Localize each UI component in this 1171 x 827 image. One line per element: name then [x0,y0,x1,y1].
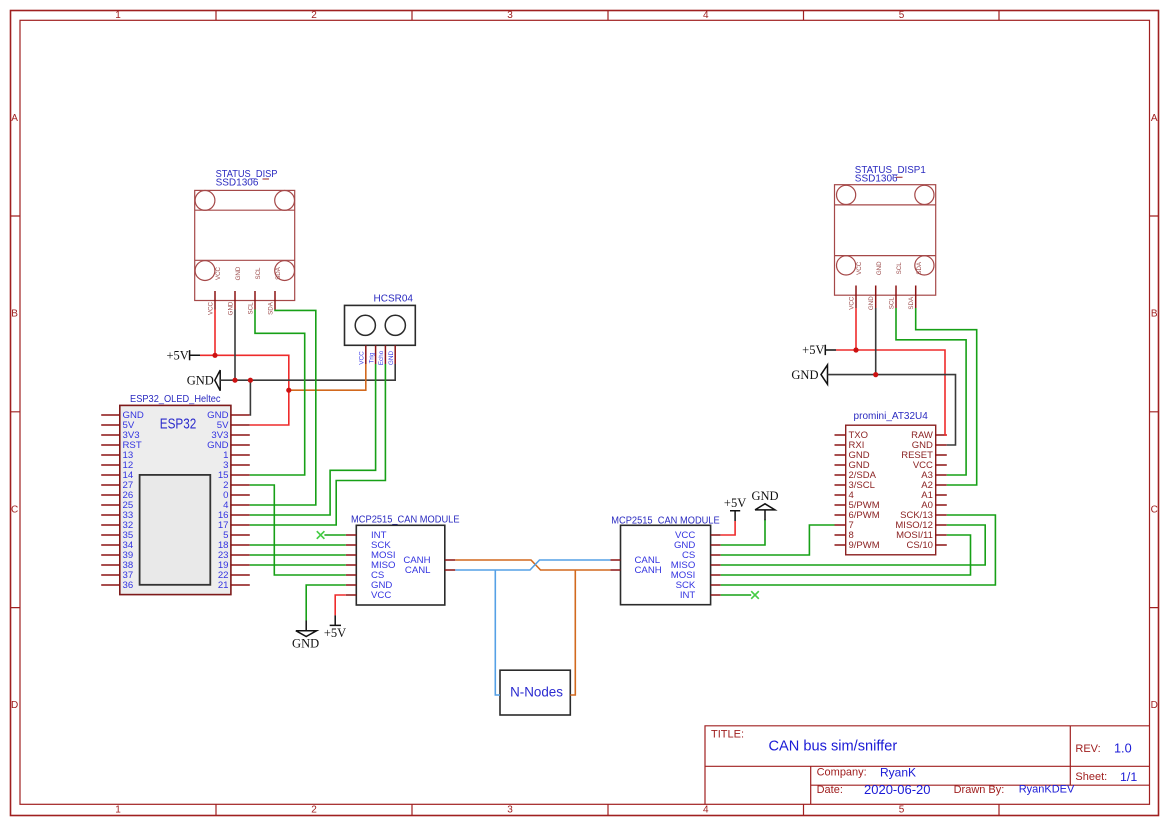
svg-text:GND: GND [751,489,778,503]
pin 1 VCC [214,291,216,310]
ESP32 OLED screen area [140,475,211,585]
wire MCP2515(R) GND to ground flag (green) [721,520,765,546]
MCP2515 right pins VCC,GND,CS,MISO,MOSI,SCK,INT and CANL,CANH [610,535,720,595]
title block [705,726,1150,805]
svg-text:SSD1306: SSD1306 [855,174,898,185]
svg-text:2: 2 [311,10,317,21]
junction +5V/VCC (right) [853,347,858,352]
svg-text:5: 5 [899,10,905,21]
junction dots [212,347,878,392]
svg-text:1.0: 1.0 [1114,742,1132,756]
svg-text:VCC: VCC [359,351,366,365]
svg-text:C: C [1151,504,1158,515]
pin 1 VCC [855,286,857,309]
power flag +5V (right) [802,343,836,357]
svg-text:Sheet:: Sheet: [1075,771,1107,783]
CAN module MCP2515 (left) [346,515,460,605]
pin 4 SDA [274,291,276,310]
ground flag GND (above right MCP2515) [751,489,778,520]
wire SDA to ESP32 pin4 (green) [250,310,316,506]
wire STATUS_DISP1 SCL to promini A3 (green) [896,308,966,475]
pin Trig [375,345,377,364]
wire MCP2515(R) CS to promini pin7 (green) [721,525,835,555]
pin 2 GND [875,286,877,309]
wire GND rail to HCSR04 GND (black) [220,364,395,380]
svg-text:SDA: SDA [268,301,275,315]
junction GND/disp (right) [873,372,878,377]
ESP32 pins GND,5V,3V3,RST,13,12,14,27,26,25,33,32,35,34,39,38,37,36 (left) and GND,5V,3V3,GND,1,3,15,2,0,4,16,17,5,18,23,19,22,21 (right) [101,415,250,585]
wire CANL drop to N-Nodes (blue) [495,570,500,695]
wire CANH drop to N-Nodes (orange) [570,570,575,695]
svg-text:9/PWM: 9/PWM [849,540,880,551]
svg-text:GND: GND [187,373,214,387]
wire +5V rail right to promini RAW (red) [836,350,947,435]
junction +5V/VCC (left) [212,353,217,358]
wire ESP32 pin23 to MCP2515 MOSI (green) [250,554,346,556]
svg-text:2: 2 [311,805,317,816]
block N-Nodes [500,670,570,715]
svg-text:SCL: SCL [896,262,903,275]
svg-text:RyanK: RyanK [880,765,916,779]
pin 3 SCL [254,291,256,310]
svg-text:TITLE:: TITLE: [711,729,744,741]
wire MCP2515(R) MISO to promini MISO/12 (green) [721,525,986,565]
ground flag GND (below left MCP2515) [292,621,319,651]
svg-text:4: 4 [703,10,709,21]
wire STATUS_DISP VCC (red) [214,310,216,356]
wire MCP2515(R) INT stub (green) [721,594,752,596]
svg-text:HCSR04: HCSR04 [374,293,414,304]
svg-text:36: 36 [123,580,134,591]
svg-text:RyanKDEV: RyanKDEV [1019,784,1075,796]
wire SCL to ESP32 pin15 (green) [250,310,305,476]
svg-text:VCC: VCC [208,301,215,315]
wire STATUS_DISP GND (black) [234,310,236,381]
svg-text:GND: GND [388,351,395,366]
power flag +5V (left) [166,348,200,362]
wire CANL crossover (blue) [455,560,610,570]
wire ESP32 pin18 to MCP2515 SCK (green) [250,544,346,546]
wire HCSR04 VCC (orange) [289,364,366,390]
svg-text:GND: GND [292,637,319,651]
svg-text:SDA: SDA [908,296,915,310]
svg-text:CANL: CANL [405,565,431,576]
ESP32 body [120,405,231,594]
svg-text:2020-06-20: 2020-06-20 [864,782,931,797]
svg-text:D: D [11,700,18,711]
svg-text:1/1: 1/1 [1120,770,1137,784]
microcontroller promini_AT32U4 [835,411,947,555]
svg-text:REV:: REV: [1075,743,1100,755]
svg-text:A: A [11,113,18,124]
svg-text:5: 5 [899,805,905,816]
svg-text:Drawn By:: Drawn By: [954,784,1005,796]
wire ESP32 GND branch (black) [249,380,252,415]
ultrasonic module HCSR04 [345,293,416,365]
svg-text:D: D [1151,700,1158,711]
pin 3 SCL [895,286,897,309]
CAN module MCP2515 (right) [610,515,720,604]
svg-text:Echo: Echo [378,350,385,365]
svg-text:ESP32: ESP32 [160,415,197,432]
MCP2515 right module body [621,525,711,604]
wire MCP2515(R) VCC to +5V flag (red) [721,521,735,535]
pin Echo [384,345,386,364]
svg-text:N-Nodes: N-Nodes [510,685,563,700]
pin VCC [365,345,367,364]
wire HCSR04 Echo to ESP32 pin17 (green) [250,364,386,525]
svg-text:GND: GND [228,301,235,315]
wire STATUS_DISP1 GND (black) [875,308,877,375]
wire +5V rail to ESP32 5V (red) [200,355,289,425]
display module STATUS_DISP1 SSD1306 [835,165,936,310]
wire MCP2515(R) SCK to promini SCK/13 (green) [721,515,996,585]
svg-text:A: A [1151,113,1158,124]
wire STATUS_DISP1 SDA to promini A2 (green) [916,308,977,485]
power flag +5V (below left MCP2515) [324,615,346,640]
pin 4 SDA [915,286,917,309]
svg-text:GND: GND [868,296,875,310]
svg-text:GND: GND [876,261,883,275]
svg-text:SDA: SDA [275,266,282,280]
svg-text:+5V: +5V [802,343,824,357]
junction GND/disp (left) [232,378,237,383]
wire MCP2515 VCC to +5V flag (red) [335,595,346,615]
svg-text:GND: GND [791,368,818,382]
wire HCSR04 Trig to ESP32 pin16 (green) [250,364,376,515]
svg-text:Date:: Date: [817,784,843,796]
svg-text:INT: INT [680,590,696,601]
svg-text:SSD1306: SSD1306 [216,178,259,189]
junction +5V/HCSR04 VCC [286,388,291,393]
svg-text:B: B [1151,309,1158,320]
svg-text:+5V: +5V [166,348,188,362]
svg-text:GND: GND [235,266,242,280]
wire STATUS_DISP1 VCC (red) [855,308,857,350]
svg-text:SCL: SCL [248,302,255,315]
wire MCP2515 INT stub (green) [324,534,345,536]
svg-text:SCL: SCL [255,267,262,280]
svg-text:ESP32_OLED_Heltec: ESP32_OLED_Heltec [130,394,221,405]
svg-text:1: 1 [115,805,121,816]
svg-text:VCC: VCC [215,266,222,280]
svg-text:C: C [11,504,18,515]
wire MCP2515(R) MOSI to promini MOSI/11 (green) [721,535,971,575]
ground flag GND (left) [187,370,220,391]
svg-text:CS/10: CS/10 [906,540,932,551]
svg-text:promini_AT32U4: promini_AT32U4 [854,411,929,422]
power flag +5V (above right MCP2515) [724,496,746,521]
svg-text:SCL: SCL [889,297,896,310]
wire GND rail right to promini GND (black) [828,375,956,445]
svg-text:3: 3 [507,805,513,816]
svg-text:CANH: CANH [635,565,662,576]
pin GND [394,345,396,364]
display module STATUS_DISP SSD1306 [195,169,295,315]
promini body [846,425,936,555]
svg-text:3: 3 [507,10,513,21]
ground flag GND (right) [791,365,827,384]
MCP2515 left pins INT,SCK,MOSI,MISO,CS,GND,VCC and CANH,CANL [346,535,456,595]
svg-text:Company:: Company: [817,767,867,779]
svg-text:+5V: +5V [324,626,346,640]
svg-text:VCC: VCC [371,590,391,601]
svg-text:VCC: VCC [856,261,863,275]
junction GND/ESP32 [248,378,253,383]
svg-text:VCC: VCC [849,296,856,310]
MCP2515 left module body [356,525,445,605]
wire ESP32 pin19 to MCP2515 MISO (green) [250,564,346,566]
svg-text:4: 4 [703,805,709,816]
wire ESP32 pin2 to MCP2515 CS (green) [250,485,346,575]
microcontroller module ESP32_OLED_Heltec U1 [101,394,250,594]
promini pins TXO,RXI,GND,GND,2/SDA,3/SCL,4,5/PWM,6/PWM,7,8,9/PWM (left) and RAW,GND,RESET,VCC,A3,A2,A1,A0,SCK/13,MISO/12,MOSI/11,CS/10 (right) [835,435,947,545]
no-connect X on INT (right) [751,591,759,599]
svg-text:21: 21 [218,580,229,591]
svg-text:+5V: +5V [724,496,746,510]
pin 2 GND [234,291,236,310]
no-connect X on INT (left) [317,531,325,539]
wire CANH crossover (orange) [455,560,610,570]
svg-text:B: B [11,309,18,320]
svg-text:MCP2515_CAN MODULE: MCP2515_CAN MODULE [351,515,460,526]
svg-text:SDA: SDA [916,261,923,275]
svg-text:CAN bus sim/sniffer: CAN bus sim/sniffer [769,738,898,754]
svg-text:Trig: Trig [368,352,375,363]
wire MCP2515 GND to ground flag (green) [306,585,346,621]
svg-text:1: 1 [115,10,121,21]
